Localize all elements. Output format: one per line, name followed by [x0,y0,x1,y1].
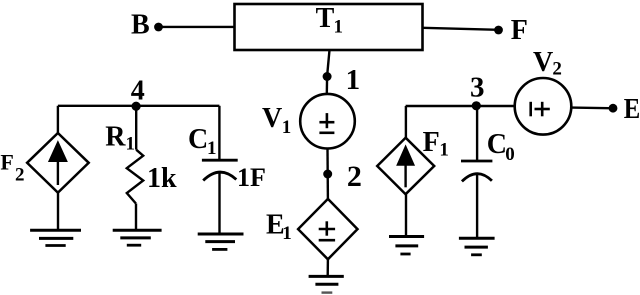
svg-text:1: 1 [126,134,136,155]
svg-text:B: B [131,10,150,41]
svg-text:2: 2 [15,164,25,185]
svg-text:R: R [105,121,126,152]
svg-text:V: V [533,47,553,78]
svg-text:1: 1 [207,138,217,159]
svg-text:1: 1 [282,117,292,138]
svg-text:1: 1 [334,17,344,38]
svg-text:F: F [0,149,13,174]
svg-text:1: 1 [439,140,449,161]
svg-text:T: T [316,3,335,34]
svg-text:F: F [511,15,528,46]
svg-text:0: 0 [505,144,515,165]
svg-text:2: 2 [347,160,362,193]
svg-text:1k: 1k [147,163,177,194]
svg-text:E: E [624,94,640,125]
svg-text:3: 3 [470,72,485,104]
svg-text:1: 1 [282,223,292,244]
svg-text:2: 2 [552,59,562,80]
svg-text:1F: 1F [237,163,266,192]
svg-text:C: C [188,124,208,155]
svg-text:1: 1 [346,64,361,96]
svg-text:C: C [487,129,507,160]
svg-text:F: F [423,127,440,158]
svg-text:V: V [262,103,282,134]
svg-text:4: 4 [131,76,145,107]
